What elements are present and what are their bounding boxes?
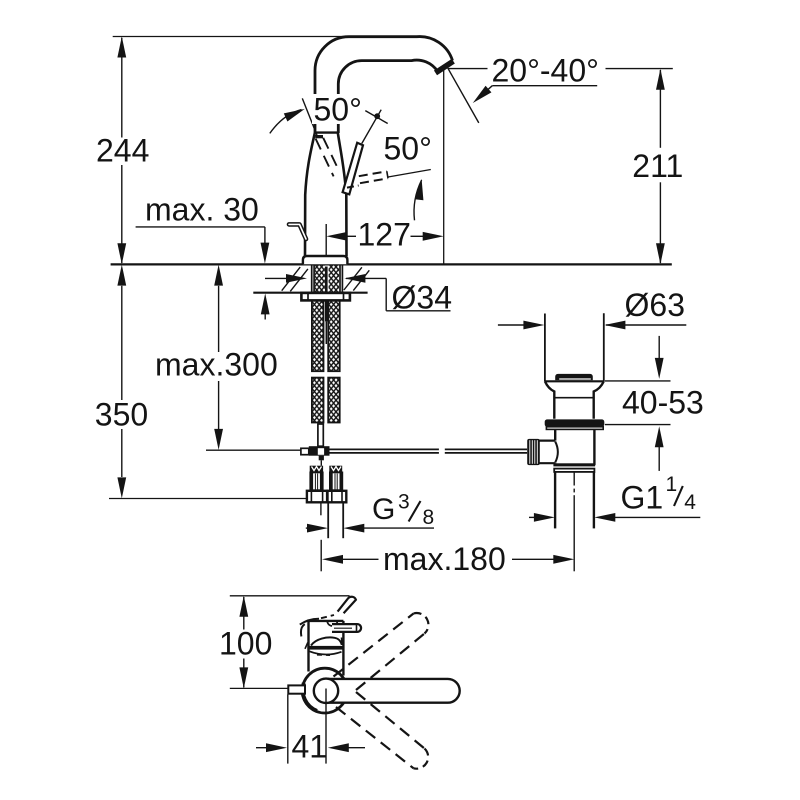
- G3/8 connector right crimp: [329, 466, 342, 473]
- dashed lever down-right: [356, 692, 425, 749]
- front view pop-up knob: [288, 685, 305, 693]
- spout axis extension line: [443, 66, 445, 264]
- dimension 20°-40°: [449, 52, 673, 106]
- lever bar solid: [326, 679, 460, 703]
- dashed lever up-right: [334, 614, 414, 677]
- pop-up rod clamp: [309, 446, 330, 456]
- lever up position (front view): [338, 597, 356, 614]
- G3/8 connector right body: [330, 472, 342, 490]
- svg-text:Ø63: Ø63: [625, 287, 685, 323]
- lever (solid position): [343, 143, 363, 195]
- svg-text:41: 41: [292, 729, 328, 765]
- dimension 40-53: [605, 336, 704, 471]
- svg-text:1: 1: [666, 473, 678, 496]
- counter bottom line: [253, 292, 367, 294]
- angle 50° upper annotation: arc with arrow: [270, 110, 302, 134]
- drain flange trumpet right: [594, 381, 604, 419]
- faucet body step: [315, 135, 323, 138]
- counter hatching left: [282, 267, 308, 291]
- svg-text:max.180: max.180: [383, 541, 506, 577]
- front view centerline: [325, 689, 327, 764]
- svg-text:211: 211: [632, 148, 683, 184]
- svg-text:244: 244: [96, 133, 149, 169]
- svg-text:G: G: [372, 493, 395, 526]
- drain tailpipe: [554, 472, 556, 529]
- drain plug extension walls: [544, 314, 546, 382]
- svg-text:max.300: max.300: [155, 347, 278, 383]
- svg-text:350: 350: [95, 397, 148, 433]
- mounting shank walls: [312, 265, 343, 293]
- curves under band: [309, 651, 342, 654]
- svg-text:40-53: 40-53: [622, 385, 704, 421]
- escutcheon circle: [302, 668, 347, 713]
- svg-text:G1: G1: [621, 480, 664, 516]
- faucet front view body: [307, 621, 309, 672]
- G3/8 connector left crimp: [310, 466, 323, 473]
- extension line at hose ends (350 bottom): [109, 498, 306, 500]
- dimension 41: [256, 695, 365, 765]
- under-counter mounting nut: [301, 293, 350, 301]
- extension line at pop-up rod level: [206, 449, 302, 451]
- supply hose upper right: [328, 300, 340, 371]
- top extension line: [113, 36, 350, 38]
- dimension 244: [94, 37, 149, 265]
- faucet body right side: [338, 133, 347, 256]
- 50° lower arc with arrow: [414, 180, 422, 220]
- spout silhouette curve left: [300, 619, 319, 625]
- svg-text:20°-40°: 20°-40°: [492, 52, 599, 88]
- front view dark band: [307, 646, 343, 650]
- faucet axis extension line: [325, 224, 327, 261]
- drain knurled knob: [527, 439, 540, 465]
- angle 50° upper annotation: reference line: [302, 98, 317, 135]
- dimension max.30: [136, 192, 270, 320]
- svg-text:3: 3: [398, 491, 410, 514]
- drain flange joint line: [554, 397, 593, 399]
- pop-up rod thin segment: [325, 321, 327, 344]
- svg-text:4: 4: [684, 491, 696, 514]
- spout outlet cut face: [436, 61, 454, 73]
- drain body walls: [554, 429, 556, 440]
- clamp foot: [319, 456, 324, 461]
- horizontal pop-up rod to drain: [330, 449, 528, 453]
- drain pop-up cap: [555, 374, 593, 380]
- svg-text:100: 100: [219, 626, 272, 662]
- drain seal lower ring: [546, 427, 603, 430]
- svg-text:Ø34: Ø34: [392, 280, 452, 316]
- dimension 211: [630, 69, 683, 264]
- spout silhouette outer left curve: [301, 624, 305, 636]
- pivot cross tick: [365, 111, 387, 124]
- spout silhouette curl: [327, 621, 337, 626]
- G3/8 tail pipe: [327, 502, 329, 538]
- G3/8 connector left nut: [307, 491, 327, 503]
- spout dome above band: [311, 637, 342, 645]
- pop-up rod upper dark segment: [325, 267, 328, 322]
- dimension 100: [217, 596, 272, 689]
- pop-up rod tube: [318, 424, 323, 446]
- pop-up rod knob at faucet back: [289, 224, 306, 239]
- top extension line (bottom view): [230, 595, 350, 597]
- G3/8 connector left body: [310, 472, 322, 490]
- faucet base plate: [303, 256, 348, 264]
- 50° upper text: [312, 92, 367, 128]
- dimension Ø34: [265, 274, 452, 316]
- dimension max.180: [321, 540, 574, 577]
- faucet body left side: [305, 133, 315, 256]
- bottom extension line (bottom view): [230, 687, 289, 689]
- drain centerline: [573, 472, 575, 571]
- faucet spout outer profile: [315, 37, 453, 133]
- cartridge axis dashed lines: [316, 139, 334, 177]
- pivot dot: [374, 113, 380, 119]
- dimension G3/8: [306, 491, 434, 533]
- svg-text:50°: 50°: [314, 92, 362, 128]
- dimension 127: [326, 217, 443, 253]
- lever ball end: [314, 679, 338, 703]
- lever alternate position dashes: [347, 186, 359, 188]
- drain flange top surface: [545, 380, 604, 382]
- dimension Ø63: [498, 287, 686, 329]
- counter hatching right: [344, 267, 369, 290]
- dimension G1 1/4: [529, 473, 700, 522]
- G3/8 connector right nut: [328, 491, 347, 503]
- supply hose lower right: [328, 378, 340, 423]
- hoses inside shank: [315, 265, 325, 293]
- faucet spout inner profile: [338, 60, 437, 133]
- front view lever cylinder: [332, 624, 361, 632]
- drain rubber seal: [545, 419, 605, 426]
- dimension max.300: [153, 265, 278, 450]
- spout flow reference line: [447, 66, 479, 123]
- supply hose lower left: [312, 378, 324, 423]
- lever axis thin line: [362, 110, 381, 144]
- dimension 350: [93, 265, 148, 499]
- drain flange trumpet left: [545, 381, 554, 419]
- svg-text:8: 8: [423, 506, 435, 529]
- faucet body ledge: [315, 131, 338, 133]
- clamp adjuster: [301, 448, 309, 454]
- drain side port: [539, 440, 556, 442]
- svg-text:127: 127: [358, 217, 411, 253]
- supply hose upper left: [312, 300, 324, 371]
- svg-text:max. 30: max. 30: [145, 192, 259, 228]
- counter top line: [111, 263, 672, 265]
- svg-text:50°: 50°: [384, 131, 432, 167]
- drain locking nut: [553, 463, 595, 466]
- pop-up rod lower dash: [320, 503, 322, 516]
